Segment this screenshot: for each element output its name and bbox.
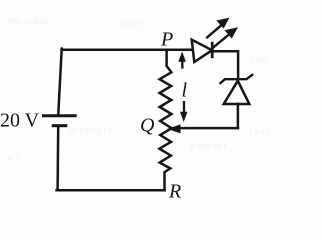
zener diode D2 bar (cathode, z-shaped) xyxy=(220,74,254,84)
svg-text:l: l xyxy=(182,80,188,102)
svg-text:Q: Q xyxy=(140,114,155,136)
svg-text:r uvc: r uvc xyxy=(250,54,270,64)
resistor PQR (potentiometer track) xyxy=(159,50,171,190)
dimension arrow l (down arrowhead) xyxy=(180,101,188,122)
wire zener anode down to bottom right corner xyxy=(237,104,240,128)
svg-text:ls efting i b: ls efting i b xyxy=(70,125,113,135)
LED D1 triangle (anode) xyxy=(192,40,212,62)
wire from LED cathode to zener branch (top right corner) xyxy=(212,51,238,78)
LED D1 cathode bar xyxy=(211,42,214,58)
LED emission arrow lower xyxy=(213,27,238,48)
svg-text:ent m and: ent m and xyxy=(8,16,48,26)
dimension arrow l (up arrowhead) xyxy=(178,52,186,69)
wire left vertical upper (battery top lead) xyxy=(58,49,61,114)
svg-text:20 V: 20 V xyxy=(0,110,40,132)
LED emission arrow upper xyxy=(206,18,229,39)
svg-text:i: i xyxy=(255,10,257,20)
zener diode D2 triangle (anode, pointing up) xyxy=(224,81,250,104)
wire top horizontal from battery branch to LED anode xyxy=(62,49,192,52)
svg-text:P: P xyxy=(160,28,173,50)
svg-text:R: R xyxy=(168,181,181,203)
battery B1 bottom plate (short) xyxy=(53,124,66,127)
svg-text:l a c|i: l a c|i xyxy=(250,127,271,137)
faint page ghost marks xyxy=(8,10,271,162)
wire wiper arm horizontal from zener branch to Q xyxy=(179,127,238,130)
svg-text:g if: g if xyxy=(8,152,21,162)
svg-text:a few of r: a few of r xyxy=(190,141,227,151)
battery B1 top plate (long) xyxy=(43,114,75,117)
svg-text:imge s: imge s xyxy=(120,18,147,28)
wire bottom horizontal xyxy=(57,189,165,192)
wire left vertical lower (battery bottom lead) xyxy=(56,127,59,190)
wiper arrow head at Q xyxy=(167,124,180,133)
